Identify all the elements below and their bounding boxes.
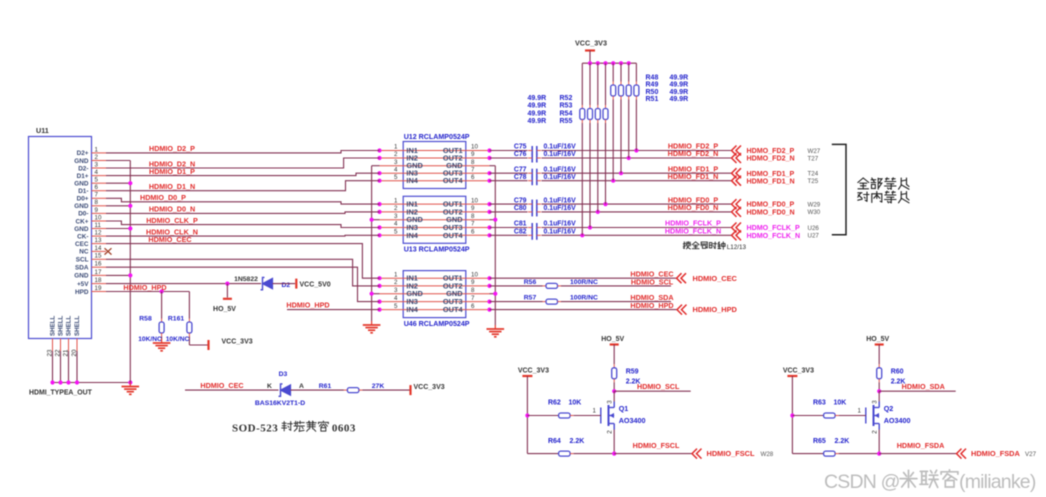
resistor R62 10K gate [527, 400, 600, 419]
svg-text:R63: R63 [813, 400, 826, 407]
note all nets equal length (Chinese) [858, 178, 909, 203]
svg-text:7: 7 [471, 166, 475, 173]
wire HDMIO_SCL [612, 389, 691, 393]
svg-text:U12 RCLAMP0524P: U12 RCLAMP0524P [404, 133, 470, 141]
U46 pin 3 GND [380, 287, 466, 298]
svg-text:+5V: +5V [77, 281, 89, 288]
U13 pin 4 IN3 [377, 221, 465, 232]
svg-text:HDMO_FCLK_P: HDMO_FCLK_P [747, 224, 800, 232]
U13 pin 6 OUT4 [443, 229, 492, 240]
svg-text:49.9R: 49.9R [528, 118, 547, 125]
svg-text:R51: R51 [646, 96, 659, 103]
U12 pin 5 IN4 [377, 174, 465, 185]
svg-text:HDMO_FCLK_N: HDMO_FCLK_N [747, 232, 801, 240]
U11 pin 6 D1- [78, 184, 106, 195]
svg-text:13: 13 [95, 237, 102, 244]
svg-text:49.9R: 49.9R [670, 75, 689, 82]
resistor R54 49.9R vertical [588, 63, 593, 227]
svg-text:HDMIO_FSDA: HDMIO_FSDA [897, 441, 945, 450]
svg-text:W29: W29 [808, 201, 821, 208]
svg-text:GND: GND [74, 226, 89, 233]
wire HDMIO_FD0_P output row [490, 202, 732, 206]
wire U11 GND bus [106, 161, 132, 383]
ESD protection IC U13 RCLAMP0524P body [403, 196, 466, 243]
svg-text:SHELL: SHELL [50, 315, 57, 336]
resistor R58 10K/NC [138, 292, 164, 343]
svg-text:5: 5 [95, 177, 99, 184]
svg-text:C75: C75 [514, 144, 527, 151]
U11 pin 11 GND [74, 222, 106, 233]
svg-text:HDMIO_CLK_P: HDMIO_CLK_P [146, 216, 198, 225]
svg-text:49.9R: 49.9R [670, 82, 689, 89]
wire HDMIO_FD1_N output row [490, 179, 732, 183]
svg-text:10: 10 [95, 214, 102, 221]
svg-text:HDMIO_D2_P: HDMIO_D2_P [149, 144, 195, 153]
svg-text:HDMIO_CEC: HDMIO_CEC [200, 381, 243, 390]
svg-text:IN4: IN4 [406, 305, 418, 314]
wire SDA [106, 267, 380, 301]
wire HDMIO_HPD to U46 IN4 [287, 309, 380, 311]
svg-text:HDMIO_FCLK_N: HDMIO_FCLK_N [665, 227, 721, 236]
svg-text:HDMIO_D0_P: HDMIO_D0_P [140, 193, 186, 202]
svg-text:U11: U11 [36, 126, 49, 135]
svg-text:HDMIO_D0_N: HDMIO_D0_N [149, 205, 195, 214]
U12 pin 10 OUT1 [443, 144, 492, 155]
svg-text:VCC_3V3: VCC_3V3 [518, 368, 549, 375]
wire HDMIO_D1_N [106, 181, 380, 191]
resistor R52 49.9R vertical [603, 63, 608, 204]
svg-text:4: 4 [394, 166, 398, 173]
U46 pin 2 IN2 [377, 279, 465, 290]
resistor R59 2.2K [612, 364, 641, 391]
wire HDMIO_FD1_P output row [490, 171, 732, 175]
wire HDMIO_SDA with R57 [490, 299, 672, 304]
svg-text:0.1uF/16V: 0.1uF/16V [544, 166, 577, 173]
port HDMO_FD2_P [732, 146, 795, 156]
port HDMIO_HPD [677, 305, 738, 315]
svg-text:HPD: HPD [75, 289, 89, 296]
svg-text:HDMIO_D1_P: HDMIO_D1_P [149, 167, 195, 176]
port HDMIO_FSDA [957, 449, 1021, 459]
svg-text:2: 2 [872, 430, 879, 434]
U46 pin 1 IN1 [377, 271, 465, 282]
wire HDMIO_HPD from U11 pin 19 [106, 289, 189, 293]
svg-text:11: 11 [95, 222, 102, 229]
wire HDMIO_CLK_N [106, 234, 380, 237]
svg-text:9: 9 [471, 205, 475, 212]
svg-text:GND: GND [74, 181, 89, 188]
svg-text:9: 9 [471, 279, 475, 286]
port HDMO_FCLK_N [732, 230, 801, 240]
power VCC_3V3 at Q2 [783, 368, 824, 454]
svg-text:W27: W27 [808, 148, 821, 155]
svg-text:49.9R: 49.9R [528, 103, 547, 110]
U11 SHELL pin 20 [71, 315, 81, 356]
U12 pin 9 OUT2 [443, 151, 492, 162]
svg-text:D0-: D0- [78, 211, 88, 218]
power VCC_3V3 top [575, 39, 607, 64]
svg-text:HDMIO_FD2_N: HDMIO_FD2_N [668, 149, 719, 158]
ESD protection IC U46 RCLAMP0524P body [403, 271, 466, 318]
svg-text:R161: R161 [168, 315, 184, 322]
resistor R53 49.9R vertical [595, 63, 600, 212]
wire chips left GND bus [370, 166, 380, 321]
svg-text:CK-: CK- [77, 233, 88, 240]
wire HDMIO_CLK_P [106, 221, 380, 228]
svg-text:8: 8 [471, 159, 475, 166]
resistor R55 49.9R vertical [580, 63, 585, 235]
U11 SHELL pin 21 [62, 315, 72, 356]
U11 pin 19 HPD [75, 285, 106, 296]
svg-text:C81: C81 [514, 221, 527, 228]
U11 pin 17 GND [74, 269, 106, 280]
U12 pin 4 IN3 [377, 166, 465, 177]
svg-text:3: 3 [394, 159, 398, 166]
svg-text:49.9R: 49.9R [670, 96, 689, 103]
resistor R61 27K [319, 383, 385, 392]
svg-text:R65: R65 [813, 438, 826, 445]
svg-text:7: 7 [471, 221, 475, 228]
wire HDMIO_CEC [106, 244, 380, 279]
svg-text:R49: R49 [646, 82, 659, 89]
U13 pin 2 IN2 [377, 205, 465, 216]
svg-text:SHELL: SHELL [74, 315, 81, 336]
svg-text:SDA: SDA [75, 265, 89, 272]
svg-text:R64: R64 [548, 438, 561, 445]
svg-text:T27: T27 [808, 155, 819, 162]
svg-text:HO_5V: HO_5V [866, 336, 889, 343]
U13 pin 5 IN4 [377, 229, 465, 240]
svg-text:HDMIO_HPD: HDMIO_HPD [286, 301, 329, 310]
svg-text:8: 8 [471, 213, 475, 220]
U12 pin 8 GND [446, 159, 489, 170]
svg-text:C79: C79 [514, 197, 527, 204]
svg-text:0.1uF/16V: 0.1uF/16V [544, 151, 577, 158]
svg-text:HDMIO_SCL: HDMIO_SCL [631, 277, 674, 286]
U12 pin 1 IN1 [377, 144, 465, 155]
svg-text:27K: 27K [372, 383, 385, 390]
capacitor C77 0.1uF/16V [514, 166, 576, 177]
svg-text:W28: W28 [761, 451, 774, 458]
svg-text:Q2: Q2 [884, 404, 894, 413]
power VCC_5V0 [296, 279, 330, 289]
resistor R56 100R/NC labels [524, 279, 598, 286]
svg-text:HDMI_TYPEA_OUT: HDMI_TYPEA_OUT [29, 390, 93, 397]
U11 pin 2 GND [74, 154, 106, 165]
ground chips right [494, 325, 496, 329]
svg-text:4: 4 [95, 169, 99, 176]
svg-text:3: 3 [872, 400, 879, 404]
svg-text:8: 8 [95, 199, 99, 206]
svg-text:L12/13: L12/13 [727, 244, 747, 251]
svg-text:R61: R61 [319, 383, 332, 390]
U46 pin 10 OUT1 [443, 271, 492, 282]
svg-text:2: 2 [394, 279, 398, 286]
U46 pin 9 OUT2 [443, 279, 492, 290]
port HDMO_FCLK_P [732, 223, 800, 233]
port HDMO_FD1_N [732, 176, 795, 186]
svg-text:R62: R62 [548, 400, 561, 407]
svg-text:K: K [267, 383, 272, 390]
svg-text:0.1uF/16V: 0.1uF/16V [544, 197, 577, 204]
labels R52-R55 49.9R [528, 95, 573, 125]
svg-text:2: 2 [607, 430, 614, 434]
svg-text:HDMIO_CEC: HDMIO_CEC [693, 274, 738, 283]
svg-text:C82: C82 [514, 229, 527, 236]
svg-text:C80: C80 [514, 205, 527, 212]
svg-text:C77: C77 [514, 166, 527, 173]
diode D3 BAS16KV2T1-D [255, 371, 305, 407]
U13 pin 1 IN1 [377, 197, 465, 208]
watermark CSDN @milianke [824, 470, 1036, 493]
svg-text:C78: C78 [514, 174, 527, 181]
wire HDMIO_FD2_N output row [490, 156, 732, 160]
wire chips right GND bus [490, 166, 498, 325]
wire HDMIO_HPD out [490, 309, 678, 311]
svg-text:SCL: SCL [76, 257, 89, 264]
note SOD-523 package compatible 0603 (Chinese) [232, 421, 356, 435]
svg-text:49.9R: 49.9R [670, 89, 689, 96]
svg-text:12: 12 [95, 230, 102, 237]
svg-text:HDMO_FD1_N: HDMO_FD1_N [747, 177, 795, 185]
U46 pin 6 OUT4 [443, 303, 492, 314]
svg-text:HDMIO_HPD: HDMIO_HPD [630, 301, 673, 310]
svg-text:NC: NC [79, 249, 89, 256]
transistor Q2 AO3400 [866, 400, 911, 434]
svg-text:5: 5 [394, 174, 398, 181]
svg-text:CEC: CEC [75, 241, 89, 248]
U12 pin 7 OUT3 [443, 166, 492, 177]
svg-text:49.9R: 49.9R [528, 95, 547, 102]
port HDMO_FD2_N [732, 153, 795, 163]
resistor R48 49.9R vertical [634, 63, 639, 150]
resistor R65 2.2K bottom [813, 438, 957, 456]
svg-text:T25: T25 [808, 178, 819, 185]
svg-text:9: 9 [95, 207, 99, 214]
svg-text:HDMIO_CEC: HDMIO_CEC [148, 235, 191, 244]
wire HDMIO_D1_P [106, 173, 380, 175]
capacitor C81 0.1uF/16V [514, 221, 576, 232]
resistor R50 49.9R vertical [619, 63, 624, 173]
wire HDMIO_FD0_N output row [490, 210, 732, 214]
wire HDMIO_CEC out [490, 277, 677, 279]
svg-text:1: 1 [592, 407, 596, 414]
wire source Q2 [878, 430, 880, 454]
U13 pin 7 OUT3 [443, 221, 492, 232]
svg-text:IN4: IN4 [406, 176, 418, 185]
svg-text:4: 4 [394, 221, 398, 228]
svg-text:R57: R57 [524, 295, 537, 302]
svg-text:1: 1 [394, 271, 398, 278]
wire HDMIO_SDA [877, 389, 956, 393]
U12 pin 6 OUT4 [443, 174, 492, 185]
svg-text:49.9R: 49.9R [528, 110, 547, 117]
U11 pin 9 D0- [78, 207, 106, 218]
U11 pin 12 CK- [77, 230, 106, 241]
wire HDMIO_CEC bottom [185, 389, 279, 391]
svg-text:W30: W30 [808, 209, 821, 216]
U11 pin 14 NC [79, 245, 106, 256]
svg-text:2.2K: 2.2K [835, 438, 850, 445]
svg-text:3: 3 [95, 161, 99, 168]
U11 pin 10 CK+ [76, 214, 106, 225]
power VCC_3V3 at Q1 [518, 368, 559, 454]
power HO_5V at Q1 [601, 336, 624, 364]
svg-text:14: 14 [95, 245, 102, 252]
svg-text:0.1uF/16V: 0.1uF/16V [544, 205, 577, 212]
svg-text:16: 16 [95, 261, 102, 268]
svg-text:T24: T24 [808, 171, 819, 178]
svg-text:IN4: IN4 [406, 231, 418, 240]
svg-text:HDMIO_HPD: HDMIO_HPD [123, 283, 166, 292]
svg-text:19: 19 [95, 285, 102, 292]
svg-text:3: 3 [394, 213, 398, 220]
U11 pin 8 GND [74, 199, 106, 210]
svg-text:10: 10 [471, 197, 478, 204]
svg-text:1: 1 [857, 407, 861, 414]
transistor Q1 AO3400 [601, 400, 646, 434]
power HO_5V stub down [213, 284, 236, 313]
svg-text:6: 6 [471, 174, 475, 181]
svg-text:6: 6 [471, 303, 475, 310]
power VCC_3V3 at R161 [209, 339, 253, 351]
svg-text:AO3400: AO3400 [884, 416, 911, 425]
U13 pin 9 OUT2 [443, 205, 492, 216]
port HDMIO_CEC [677, 273, 738, 283]
U11 SHELL pin 23 [46, 315, 56, 356]
svg-text:1: 1 [394, 197, 398, 204]
wire HDMIO_D2_N [106, 158, 380, 168]
svg-text:0603: 0603 [332, 423, 356, 435]
svg-text:V27: V27 [1025, 451, 1037, 458]
svg-text:10K: 10K [833, 400, 846, 407]
resistor R51 49.9R vertical [611, 63, 616, 181]
wire HDMIO_D0_N [106, 212, 380, 214]
svg-text:R55: R55 [560, 118, 573, 125]
svg-text:HDMO_FD0_N: HDMO_FD0_N [747, 209, 795, 217]
capacitor C76 0.1uF/16V [514, 151, 576, 162]
wire SCL [106, 259, 380, 286]
capacitor C79 0.1uF/16V [514, 197, 576, 208]
svg-text:D0+: D0+ [77, 196, 89, 203]
svg-text:6: 6 [471, 229, 475, 236]
svg-text:1N5822: 1N5822 [234, 276, 258, 283]
svg-text:OUT4: OUT4 [443, 231, 464, 240]
svg-text:3: 3 [607, 400, 614, 404]
no-connect X on U11 pin 14 [105, 248, 112, 254]
U11 pin 1 D2+ [77, 146, 106, 157]
svg-text:HDMO_FD2_N: HDMO_FD2_N [747, 155, 795, 163]
svg-text:R48: R48 [646, 75, 659, 82]
svg-text:15: 15 [95, 253, 102, 260]
svg-text:1: 1 [95, 146, 99, 153]
svg-text:HDMO_FD0_P: HDMO_FD0_P [747, 201, 795, 209]
U12 pin 3 GND [380, 159, 466, 170]
ESD protection IC U12 RCLAMP0524P body [403, 142, 466, 189]
svg-text:D2+: D2+ [77, 150, 89, 157]
svg-text:R54: R54 [560, 110, 573, 117]
svg-text:D2: D2 [282, 282, 291, 289]
wire HDMIO_SCL with R56 [490, 283, 672, 288]
wire HDMIO_FCLK_P output row [490, 225, 732, 229]
port HDMO_FD0_N [732, 207, 795, 217]
svg-text:100R/NC: 100R/NC [570, 295, 598, 302]
port HDMIO_FSCL [692, 449, 755, 459]
svg-text:U46 RCLAMP0524P: U46 RCLAMP0524P [404, 320, 470, 328]
svg-text:10K/NC: 10K/NC [166, 336, 190, 343]
U46 pin 8 GND [446, 287, 489, 298]
capacitor C78 0.1uF/16V [514, 174, 576, 185]
wire drain Q1 [613, 391, 615, 401]
svg-text:100R/NC: 100R/NC [570, 279, 598, 286]
svg-text:CK+: CK+ [76, 218, 89, 225]
resistor R161 10K/NC [166, 292, 208, 346]
svg-text:HDMIO_SCL: HDMIO_SCL [637, 382, 680, 391]
svg-text:R50: R50 [646, 89, 659, 96]
wire pull-up bus [582, 61, 636, 65]
svg-text:U27: U27 [808, 233, 820, 240]
ground chips left [371, 321, 373, 325]
resistor R63 10K gate [792, 400, 865, 419]
svg-text:D2-: D2- [78, 165, 88, 172]
svg-text:5: 5 [394, 229, 398, 236]
svg-text:GND: GND [74, 158, 89, 165]
connector U11 body [29, 137, 92, 339]
port HDMO_FD0_P [732, 199, 795, 209]
svg-text:7: 7 [471, 295, 475, 302]
wire R61 to VCC_3V3 [359, 389, 410, 391]
wire HDMIO_FCLK_N output row [490, 233, 732, 237]
diode D2 1N5822 [234, 276, 290, 290]
svg-text:D1-: D1- [78, 188, 88, 195]
port HDMO_FD1_P [732, 168, 795, 178]
U46 pin 5 IN4 [377, 303, 465, 314]
svg-text:GND: GND [74, 273, 89, 280]
svg-text:HDMIO_D1_N: HDMIO_D1_N [149, 182, 195, 191]
svg-text:HO_5V: HO_5V [601, 336, 624, 343]
svg-text:VCC_3V3: VCC_3V3 [783, 368, 814, 375]
U13 pin 10 OUT1 [443, 197, 492, 208]
svg-text:2: 2 [394, 151, 398, 158]
U13 pin 3 GND [380, 213, 466, 224]
svg-text:VCC_5V0: VCC_5V0 [300, 281, 331, 288]
svg-text:OUT4: OUT4 [443, 176, 464, 185]
svg-text:9: 9 [471, 151, 475, 158]
svg-text:0.1uF/16V: 0.1uF/16V [544, 174, 577, 181]
svg-text:VCC_3V3: VCC_3V3 [414, 384, 445, 391]
ground at R58 [161, 339, 163, 343]
power HO_5V at Q2 [866, 336, 889, 364]
svg-text:SHELL: SHELL [58, 315, 65, 336]
U11 pin 18 +5V [77, 277, 106, 288]
svg-text:R52: R52 [560, 95, 573, 102]
svg-text:0.1uF/16V: 0.1uF/16V [544, 144, 577, 151]
wire D2 to VCC_5V0 [273, 283, 296, 285]
bracket all-equal-length [832, 144, 846, 234]
svg-text:R56: R56 [524, 279, 537, 286]
capacitor C80 0.1uF/16V [514, 205, 576, 216]
note connect global clock L12/13 (Chinese) [683, 242, 746, 251]
resistor R64 2.2K bottom [548, 438, 692, 456]
svg-text:10K: 10K [568, 400, 581, 407]
svg-text:HDMIO_FSCL: HDMIO_FSCL [707, 449, 756, 458]
svg-text:R58: R58 [139, 315, 152, 322]
U11 pin 4 D1+ [77, 169, 106, 180]
U11 pin 5 GND [74, 177, 106, 188]
svg-text:8: 8 [471, 287, 475, 294]
svg-text:VCC_3V3: VCC_3V3 [575, 39, 607, 48]
svg-text:0.1uF/16V: 0.1uF/16V [544, 221, 577, 228]
